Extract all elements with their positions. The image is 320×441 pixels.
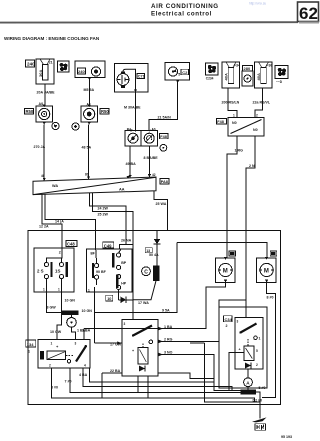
svg-text:C2: C2 <box>182 70 188 75</box>
svg-text:4: 4 <box>84 364 86 368</box>
svg-text:2: 2 <box>49 364 51 368</box>
wire ignition to junction <box>149 80 178 129</box>
wire battery down <box>124 92 141 132</box>
svg-text:22a RS/VL: 22a RS/VL <box>253 101 271 105</box>
svg-text:2 RG: 2 RG <box>164 338 173 342</box>
wire 2 RG <box>158 300 246 343</box>
inner box bottom right <box>219 307 267 388</box>
svg-text:2: 2 <box>226 324 228 328</box>
label 13 <box>145 248 159 257</box>
svg-text:5: 5 <box>256 349 258 353</box>
svg-text:8 #0: 8 #0 <box>51 386 58 390</box>
label F48 junction <box>160 134 169 139</box>
thermoswitch 280 <box>242 66 253 87</box>
ground symbol box <box>255 424 266 431</box>
svg-text:42: 42 <box>152 173 156 177</box>
svg-text:C34: C34 <box>225 317 233 322</box>
wire trapezoid left pin A to C48 <box>39 194 62 248</box>
svg-text:24 2W: 24 2W <box>98 207 109 211</box>
svg-text:9 5A: 9 5A <box>162 308 170 312</box>
fan motor box E6 #1 <box>215 257 235 282</box>
svg-text:A0: A0 <box>39 102 44 106</box>
label C49 <box>103 242 114 248</box>
svg-text:1: 1 <box>88 289 90 293</box>
svg-text:1 BA: 1 BA <box>77 329 86 333</box>
svg-text:3: 3 <box>75 342 77 346</box>
fan icon box 3 <box>275 66 288 84</box>
wire fuse21 to motor A0 <box>37 84 56 106</box>
small fan circle 2 <box>72 123 79 130</box>
svg-text:17 GW: 17 GW <box>110 343 122 347</box>
wire junction right down <box>144 146 159 178</box>
svg-text:280: 280 <box>244 66 251 71</box>
label C71 <box>137 73 145 78</box>
svg-text:M: M <box>223 269 228 275</box>
svg-text:BP: BP <box>121 261 127 265</box>
switch box C48 <box>34 248 74 292</box>
svg-text:22 BA: 22 BA <box>110 369 121 373</box>
wire bar bottom to relay2 top <box>133 281 156 320</box>
wire PA8 tip down <box>154 191 168 231</box>
svg-text:M5 5A: M5 5A <box>84 88 95 92</box>
wires relay2 left <box>95 341 123 346</box>
fuse F21 box <box>36 59 54 84</box>
svg-text:10 GN: 10 GN <box>65 299 76 303</box>
svg-text:10 GW: 10 GW <box>50 330 62 334</box>
svg-text:2: 2 <box>256 363 258 367</box>
svg-text:40A: 40A <box>256 73 261 80</box>
svg-text:8 BA/BE: 8 BA/BE <box>144 156 159 160</box>
wire relay1 pin3 top (1 BA riser) <box>77 329 158 340</box>
diode wire into C-bar <box>154 231 161 266</box>
svg-text:BF: BF <box>91 252 95 256</box>
svg-text:N0: N0 <box>232 121 237 125</box>
svg-text:N0: N0 <box>253 128 258 132</box>
wire motor1 down <box>34 125 47 181</box>
svg-text:20A JA/BE: 20A JA/BE <box>37 91 56 95</box>
label C48 <box>66 240 77 246</box>
fan icon box 2 <box>206 63 219 81</box>
wire C49 bottoms down <box>82 292 133 343</box>
label R50 left <box>25 109 34 115</box>
wire trapezoid left pin B to C49 left <box>45 194 95 249</box>
outer big box <box>28 231 281 405</box>
svg-text:M: M <box>264 269 269 275</box>
svg-text:F48: F48 <box>160 135 167 139</box>
svg-text:WA: WA <box>52 184 58 188</box>
alternator box <box>75 61 105 80</box>
label F48 relay <box>217 119 227 125</box>
svg-text:2 S: 2 S <box>37 269 44 274</box>
svg-text:8 GW: 8 GW <box>47 306 57 310</box>
wire step 25 2W to motor2 feed <box>93 193 134 300</box>
label 240 <box>26 60 36 67</box>
junction block 2 terminals <box>125 128 158 147</box>
motor R50 #2 <box>81 103 98 125</box>
wire alternator to motor2 <box>84 80 95 107</box>
black resistor bottom right <box>240 386 265 395</box>
svg-text:50 4A: 50 4A <box>149 253 159 257</box>
svg-text:1: 1 <box>259 337 261 341</box>
svg-text:5 #0: 5 #0 <box>259 386 266 390</box>
svg-text:4 BA: 4 BA <box>79 373 88 377</box>
svg-text:134: 134 <box>27 342 34 347</box>
svg-text:90 BF: 90 BF <box>96 270 107 274</box>
label R50 right <box>100 109 109 115</box>
svg-text:1: 1 <box>233 114 235 118</box>
wire junction left down <box>126 146 137 178</box>
circle C <box>142 267 151 276</box>
harness trapezoid WA/AA <box>33 173 156 195</box>
svg-text:3 NO: 3 NO <box>164 351 173 355</box>
wire C48 left down to heater resistor <box>46 292 62 312</box>
fan motor box E6 #2 <box>257 257 277 282</box>
label PA8 <box>160 179 169 185</box>
svg-text:HP: HP <box>121 281 127 285</box>
wire relay3 top feed <box>245 300 247 318</box>
svg-text:25 WA: 25 WA <box>156 202 167 206</box>
relay1 bottom wires to bus <box>51 368 260 402</box>
diode on wire <box>121 297 127 303</box>
relay F48 <box>228 118 264 137</box>
svg-text:1: 1 <box>28 350 30 354</box>
svg-text:200 RS/LN: 200 RS/LN <box>222 101 240 105</box>
svg-text:1: 1 <box>51 342 53 346</box>
svg-text:21 5A/N: 21 5A/N <box>158 116 172 120</box>
svg-text:F48: F48 <box>217 120 224 124</box>
svg-text:PA8: PA8 <box>161 180 168 184</box>
svg-text:62: 62 <box>299 4 318 23</box>
svg-text:2: 2 <box>256 114 258 118</box>
svg-text:1 BA: 1 BA <box>164 325 173 329</box>
svg-text:+: + <box>239 348 241 352</box>
svg-text:40: 40 <box>41 174 45 178</box>
heater black resistor <box>62 309 92 315</box>
ground wire out of box <box>253 392 263 418</box>
svg-text:10 GN: 10 GN <box>82 309 93 313</box>
svg-text:8 #0: 8 #0 <box>267 295 274 299</box>
wire relay3 to circle A <box>247 369 249 379</box>
header title <box>151 2 266 18</box>
svg-text:Electrical control: Electrical control <box>151 11 212 18</box>
ground arrow <box>252 417 267 422</box>
svg-text:40A: 40A <box>224 73 229 80</box>
svg-text:21: 21 <box>49 61 53 65</box>
wire step 24 2W <box>90 193 134 249</box>
thermal sensor circle <box>67 315 77 339</box>
wire relay pin1 out (1 RG) <box>227 136 243 258</box>
svg-text:25 2W: 25 2W <box>98 213 109 217</box>
svg-text:http://vnx.su: http://vnx.su <box>249 2 266 6</box>
svg-text:3: 3 <box>124 322 126 326</box>
relay 3 (in inner box) <box>235 318 263 370</box>
svg-text:R50: R50 <box>101 109 109 114</box>
svg-text:1 RG: 1 RG <box>235 149 244 153</box>
svg-text:2 N: 2 N <box>249 164 255 168</box>
svg-text:1S: 1S <box>55 269 60 274</box>
svg-text:1: 1 <box>43 288 45 292</box>
wire motor2 down <box>82 125 92 180</box>
svg-text:M 30A/BE: M 30A/BE <box>124 106 141 110</box>
relay 1 bottom left <box>38 340 90 369</box>
ignition switch box <box>165 62 190 82</box>
svg-text:A2: A2 <box>87 103 91 107</box>
svg-text:WIRING DIAGRAM : ENGINE COOLIN: WIRING DIAGRAM : ENGINE COOLING FAN <box>4 36 100 41</box>
wires relay2 bottom <box>138 376 148 398</box>
svg-text:+: + <box>56 344 59 349</box>
svg-text:240: 240 <box>78 69 85 74</box>
wire relay pin2 out (2 N) <box>246 136 255 300</box>
label 10 boxed <box>106 295 113 301</box>
svg-text:7 #0: 7 #0 <box>65 380 72 384</box>
svg-text:17 WA: 17 WA <box>138 301 149 305</box>
label 134 <box>26 340 36 354</box>
svg-text:R50: R50 <box>26 109 34 114</box>
svg-text:A0: A0 <box>152 128 156 132</box>
svg-text:2: 2 <box>59 251 61 255</box>
svg-text:80: 80 <box>85 173 89 177</box>
svg-text:26 NA: 26 NA <box>121 239 132 243</box>
wire motor2 out down right side <box>262 282 275 397</box>
svg-text:C234: C234 <box>206 77 214 81</box>
wire coil feed left <box>229 353 244 391</box>
wire 22 BA right segment <box>158 373 214 379</box>
svg-text:AA: AA <box>119 188 125 192</box>
label C34 <box>224 316 233 328</box>
svg-text:270 JA: 270 JA <box>34 145 46 149</box>
wire 9 5A riser to motor2 line <box>95 242 177 312</box>
label E6 #2 <box>270 251 277 256</box>
svg-text:~~D: ~~D <box>276 80 283 84</box>
svg-text:1: 1 <box>58 288 60 292</box>
fuse F34 box <box>222 62 240 88</box>
svg-text:F34: F34 <box>234 64 240 68</box>
svg-text:48 5A: 48 5A <box>82 146 92 150</box>
wire motor2 feed from thermo riser <box>177 242 267 258</box>
svg-text:C: C <box>144 269 148 275</box>
svg-text:AIR CONDITIONING: AIR CONDITIONING <box>151 3 219 10</box>
svg-text:12 2A: 12 2A <box>39 225 49 229</box>
svg-text:B4: B4 <box>127 128 131 132</box>
svg-text:14 (A: 14 (A <box>55 219 64 223</box>
wire motor1 out to 1 BA <box>158 282 226 330</box>
battery box <box>115 64 149 93</box>
svg-text:3: 3 <box>237 320 239 324</box>
motor R50 #1 <box>36 105 53 125</box>
fan icon 1 <box>58 61 70 72</box>
svg-text:C49: C49 <box>104 243 112 248</box>
wire C48 right down to relay1 <box>50 292 75 340</box>
small circle below junction <box>160 144 167 151</box>
wire F34 to relay pin1 <box>222 88 240 118</box>
svg-text:30A: 30A <box>38 70 43 77</box>
label E6 #1 <box>229 251 236 256</box>
svg-text:F36: F36 <box>266 64 272 68</box>
svg-text:5: 5 <box>178 73 180 77</box>
svg-text:49 BA: 49 BA <box>126 162 137 166</box>
resistor black bar <box>153 265 160 281</box>
bus line lower <box>190 343 260 402</box>
circle A gauge <box>244 378 253 390</box>
pressure switch box C49 <box>87 249 133 293</box>
svg-text:240: 240 <box>27 62 35 67</box>
fuse F36 box <box>255 62 273 88</box>
svg-text:C48: C48 <box>67 242 75 247</box>
svg-text:10: 10 <box>107 297 111 301</box>
wire F36 to relay pin2 <box>253 88 271 118</box>
svg-text:C71: C71 <box>138 75 145 79</box>
svg-text:+: + <box>132 349 134 353</box>
svg-text:A: A <box>246 381 250 386</box>
small fan circle 1 <box>52 122 59 129</box>
svg-text:95 193: 95 193 <box>281 435 292 439</box>
header rule <box>0 21 298 23</box>
page number box 62 <box>298 2 320 24</box>
relay 2 bottom middle <box>122 320 158 377</box>
wire 3 NO <box>158 351 240 391</box>
label C2 <box>181 69 189 75</box>
